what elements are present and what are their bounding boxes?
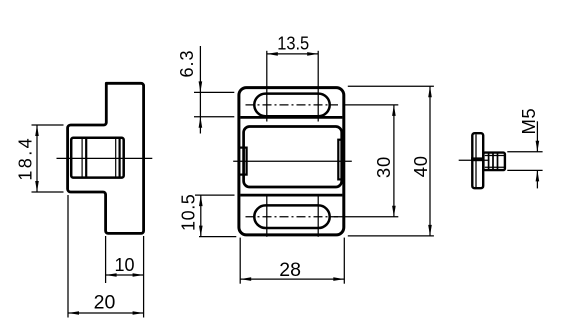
svg-text:28: 28 (279, 259, 301, 281)
dim 40 arrow down (428, 225, 432, 236)
body outline front view (239, 88, 344, 235)
thread crest line 2 (492, 153, 494, 169)
dim 10.5 arrow down (199, 226, 203, 237)
dim 20 line (68, 312, 144, 314)
svg-text:40: 40 (410, 155, 431, 177)
centerline left view (57, 157, 153, 159)
dim 18.4 extension line top (32, 124, 64, 126)
svg-text:6.3: 6.3 (177, 49, 197, 77)
dim 28 line (240, 278, 344, 280)
dim 10 line (106, 274, 144, 276)
dim M5 extension line top (507, 151, 542, 153)
dim 13.5 arrow right (307, 52, 318, 56)
screw head outline (472, 133, 483, 188)
dim M5 arrow up (536, 170, 540, 181)
boss inner thin line left (81, 138, 83, 178)
dim 18.4 extension line bottom (32, 191, 64, 193)
bottom slot arc center mark left (266, 197, 268, 237)
dim 6.3 arrow up (outside below) (199, 117, 203, 128)
top slot arc center mark right / 13.5 extension right (317, 51, 319, 122)
dim 10.5 arrow up (199, 195, 203, 206)
dim M5 arrow down (536, 141, 540, 152)
right latch notch (338, 140, 342, 180)
dim 20 extension line left (67, 195, 69, 318)
thread minor line top (485, 155, 504, 157)
dim 10.5 line (200, 195, 202, 237)
dim 40 line (429, 86, 431, 236)
top mounting slot (254, 94, 329, 117)
bottom slot centerline (246, 216, 339, 218)
dim 18.4 arrow up (35, 125, 39, 136)
dim M5 extension line bottom (507, 169, 542, 171)
svg-text:10: 10 (114, 255, 134, 275)
dim 30 arrow down (392, 206, 396, 217)
dim 28 extension line right (343, 238, 345, 284)
part outline left view (68, 83, 144, 233)
screw centerline (459, 159, 490, 161)
dim 13.5 arrow left (267, 52, 278, 56)
top flange bottom edge (240, 116, 342, 119)
svg-text:M5: M5 (518, 108, 539, 135)
magnet housing outline (244, 127, 342, 188)
boss inner thick line right (118, 138, 120, 178)
dim 18.4 arrow down (35, 181, 39, 192)
dim 6.3 line (199, 46, 201, 134)
bottom mounting slot (254, 205, 329, 228)
screw boss outline left view (71, 138, 124, 178)
dim 13.5 line (267, 53, 318, 55)
main centerline (233, 160, 352, 162)
dim 6.3 extension line top (194, 91, 234, 93)
thread crest line 3 (497, 153, 499, 169)
boss inner thick line left (85, 138, 87, 178)
svg-text:18.4: 18.4 (15, 136, 35, 181)
svg-text:20: 20 (94, 292, 116, 314)
dim 30 extension line bottom (334, 216, 399, 218)
screw shank outline (483, 153, 505, 171)
dim 40 arrow up (428, 86, 432, 97)
thread crest line 1 (488, 153, 490, 169)
screw head inner line (475, 135, 477, 188)
dim 10 extension line (105, 236, 107, 283)
dim 28 arrow left (240, 277, 251, 281)
screw head slot (471, 157, 484, 161)
dim 10 arrow left (106, 273, 117, 277)
dim 20 arrow right (133, 311, 144, 315)
dim 40 extension line bottom (348, 235, 434, 237)
top slot centerline (246, 104, 339, 106)
svg-text:10.5: 10.5 (179, 194, 199, 231)
dim 10.5 extension line top (195, 194, 235, 196)
bottom slot arc center mark right (317, 197, 319, 237)
dim 28 extension line left (239, 238, 241, 284)
dim 6.3 arrow down (outside above) (199, 81, 203, 92)
dim 30 arrow up (392, 105, 396, 116)
bottom flange top edge (240, 194, 342, 197)
thread minor line bottom (485, 166, 504, 168)
dim M5 line lower segment (536, 170, 538, 188)
left latch notch (239, 148, 247, 175)
svg-text:30: 30 (373, 156, 394, 178)
top slot arc center mark left / 13.5 extension left (266, 51, 268, 122)
dim 18.4 line (36, 125, 38, 192)
dim 28 arrow right (333, 277, 344, 281)
dim 10 arrow right (133, 273, 144, 277)
dim 20 arrow left (68, 311, 79, 315)
dim 30 line (393, 105, 395, 217)
boss inner thin line right (115, 138, 117, 178)
dim 40 extension line top (348, 85, 434, 87)
dim 6.3 extension line bottom (194, 116, 234, 118)
dim 20 extension line right (143, 236, 145, 318)
dim M5 line upper segment (536, 121, 538, 152)
dim 10.5 extension line bottom (199, 236, 236, 238)
svg-text:13.5: 13.5 (277, 32, 309, 53)
dim 30 extension line top (345, 104, 399, 106)
